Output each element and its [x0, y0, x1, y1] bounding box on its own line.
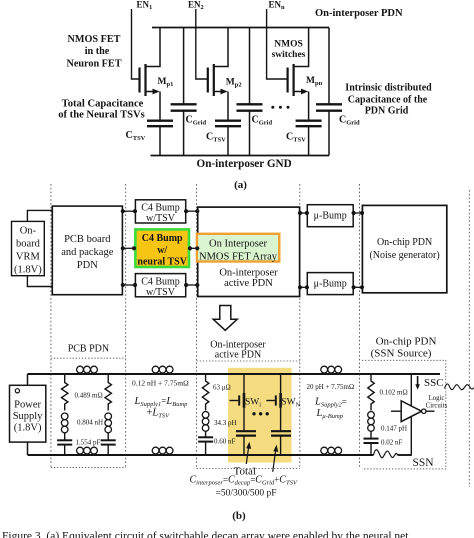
- svg-text:On-interposer GND: On-interposer GND: [197, 158, 292, 170]
- wire u-Bump bottom to On-chip: [353, 286, 362, 288]
- svg-text:Lμ-Bump: Lμ-Bump: [316, 408, 344, 420]
- box On-chip SSN dotted edges: [362, 360, 446, 469]
- resistor pcb branch A: [61, 374, 67, 411]
- block C4 Bump w/TSV top: [135, 200, 185, 223]
- svg-text:w/TSV: w/TSV: [146, 213, 176, 224]
- svg-text:active PDN: active PDN: [224, 278, 273, 289]
- svg-text:NMOS FET Array: NMOS FET Array: [199, 252, 278, 263]
- svg-text:CGrid: CGrid: [252, 115, 273, 127]
- capacitor C_TSV 1: [147, 121, 173, 156]
- arrow Total to SWN capacitor: [273, 450, 276, 472]
- resistor 0.102 mOhm: [368, 374, 374, 411]
- svg-text:0.60 nF: 0.60 nF: [214, 438, 236, 446]
- svg-text:CTSV: CTSV: [286, 132, 306, 144]
- wire interposer to u-Bump bottom: [300, 286, 308, 288]
- block u-Bump top: [307, 205, 353, 227]
- block On Interposer NMOS FET Array (highlighted): [197, 234, 279, 262]
- svg-text:NMOS FET: NMOS FET: [68, 34, 121, 45]
- svg-text:(1.8V): (1.8V): [14, 423, 42, 434]
- svg-text:and package: and package: [61, 247, 114, 258]
- svg-text:SSC: SSC: [424, 377, 444, 389]
- wire supply to bottom rail: [27, 442, 29, 455]
- capacitor 0.02 nF: [364, 431, 379, 455]
- svg-text:SWi: SWi: [245, 398, 261, 409]
- inductor L_supply2 bottom: [321, 447, 342, 454]
- svg-text:On-interposer PDN: On-interposer PDN: [315, 8, 403, 19]
- capacitor C_TSV 2: [215, 121, 241, 156]
- svg-text:active PDN: active PDN: [215, 350, 261, 361]
- svg-text:0.147 pH: 0.147 pH: [381, 425, 407, 433]
- source Power Supply: [10, 385, 46, 442]
- svg-text:C4 Bump: C4 Bump: [141, 277, 180, 288]
- svg-text:VRM: VRM: [16, 252, 41, 263]
- svg-text:(1.8V): (1.8V): [14, 265, 42, 276]
- svg-text:(a): (a): [234, 179, 247, 191]
- inductor pcb branch A: [61, 413, 68, 433]
- wire PCB to C4 top: [122, 210, 135, 212]
- block C4 Bump w/TSV bottom: [135, 274, 185, 297]
- wire C4 mid to interposer: [189, 247, 198, 249]
- svg-text:w/TSV: w/TSV: [146, 287, 176, 298]
- svg-text:Circuits: Circuits: [426, 403, 448, 410]
- op-amp inverter U1: [391, 401, 435, 422]
- transistor SWN: [266, 374, 280, 431]
- wire dashed guide line 2: [125, 184, 127, 468]
- box PCB PDN dotted edges: [51, 357, 126, 359]
- box active PDN dotted edges: [197, 360, 300, 362]
- node bottom ground rail: [28, 454, 374, 456]
- wire PCB to C4 bottom: [122, 284, 135, 286]
- svg-text:0.489 mΩ: 0.489 mΩ: [75, 392, 103, 400]
- svg-text:34.3 pH: 34.3 pH: [214, 419, 237, 427]
- svg-text:NMOS: NMOS: [274, 40, 303, 50]
- svg-text:CTSV: CTSV: [206, 132, 226, 144]
- svg-text:μ-Bump: μ-Bump: [314, 279, 347, 290]
- wire C4 top to interposer: [186, 210, 198, 212]
- resistor 63 uOhm: [202, 374, 208, 411]
- capacitor 0.60 nF: [198, 431, 213, 455]
- wire inverter supply column: [410, 374, 412, 406]
- svg-text:in the: in the: [85, 46, 110, 57]
- wire EN1 to gate of Mp1: [132, 9, 140, 79]
- wire EN2 to gate of Mp2: [196, 9, 208, 79]
- capacitor C_Grid 1: [171, 28, 197, 156]
- svg-text:PDN Grid: PDN Grid: [365, 106, 409, 117]
- capacitor under SWN: [271, 431, 291, 455]
- wire dashed guide line 3: [196, 184, 198, 469]
- svg-text:(b): (b): [232, 510, 246, 522]
- svg-text:On-chip PDN: On-chip PDN: [376, 336, 437, 348]
- node top power rail: [28, 373, 441, 375]
- svg-text:PDN: PDN: [77, 260, 98, 271]
- transistor Mp2: [208, 28, 228, 121]
- arrow SSC: [417, 376, 419, 385]
- svg-text:LSupply2=: LSupply2=: [314, 397, 347, 409]
- block arrow down: [213, 306, 237, 331]
- svg-text:0.12 nH + 7.75mΩ: 0.12 nH + 7.75mΩ: [132, 379, 189, 388]
- svg-text:On-: On-: [20, 226, 37, 237]
- svg-text:Intrinsic distributed: Intrinsic distributed: [345, 83, 432, 94]
- inductor L_supply2 top: [321, 366, 342, 373]
- svg-text:neural TSV: neural TSV: [137, 257, 187, 268]
- inductor L pcb top: [77, 366, 98, 373]
- svg-text:(Noise generator): (Noise generator): [369, 250, 439, 261]
- transistor Mpn: [288, 28, 309, 121]
- svg-text:Neuron FET: Neuron FET: [66, 59, 121, 70]
- svg-text:ENn: ENn: [269, 0, 286, 11]
- svg-text:Figure 3. (a) Equivalent ci: Figure 3. (a) Equivalent circuit of swit…: [2, 530, 409, 538]
- wire dashed guide line 6: [468, 190, 470, 487]
- svg-text:Mpn: Mpn: [306, 76, 323, 87]
- svg-text:Mp2: Mp2: [226, 78, 242, 89]
- svg-text:Total Capacitance: Total Capacitance: [62, 99, 144, 110]
- svg-text:On-interposer: On-interposer: [219, 268, 278, 279]
- svg-text:LSupply1=LBump: LSupply1=LBump: [134, 396, 189, 408]
- wire SSN noise squiggle: [374, 450, 398, 458]
- svg-text:SSN: SSN: [413, 457, 435, 469]
- wire VRM bottom to PCB box: [27, 276, 52, 287]
- wire VRM top to PCB box: [27, 210, 52, 221]
- capacitor pcb branch B: [101, 433, 116, 455]
- capacitor C_Grid 3: [316, 28, 342, 156]
- svg-text:board: board: [16, 239, 41, 250]
- block interposer: [198, 207, 300, 296]
- inductor L pcb bottom: [77, 447, 98, 454]
- svg-text:+LTSV: +LTSV: [147, 408, 171, 420]
- svg-text:20 pH + 7.75mΩ: 20 pH + 7.75mΩ: [307, 383, 355, 391]
- svg-text:of the Neural TSVs: of the Neural TSVs: [58, 110, 145, 121]
- capacitor under SWi: [236, 431, 256, 455]
- node dots ellipsis: [271, 106, 289, 109]
- svg-text:On-chip PDN: On-chip PDN: [377, 237, 432, 248]
- wire PCB to C4 mid: [122, 247, 135, 249]
- svg-text:=50/300/500 pF: =50/300/500 pF: [216, 489, 277, 499]
- inductor L_supply1 bottom: [152, 447, 173, 454]
- svg-text:C4 Bump: C4 Bump: [141, 203, 180, 214]
- node dots ellipsis SW: [252, 412, 269, 415]
- svg-text:0.02 nF: 0.02 nF: [381, 439, 403, 447]
- svg-text:EN1: EN1: [137, 0, 153, 11]
- svg-text:63 μΩ: 63 μΩ: [213, 384, 231, 392]
- highlight yellow decap region: [228, 368, 292, 463]
- svg-text:Mp1: Mp1: [158, 77, 174, 88]
- wire supply to top rail: [27, 374, 29, 385]
- wire SSC noise squiggle: [445, 384, 474, 390]
- wire u-Bump top to On-chip: [353, 212, 362, 214]
- arrow Total to SWi capacitor: [246, 447, 248, 464]
- block On-chip PDN (Noise generator): [362, 205, 446, 292]
- svg-text:Power: Power: [14, 400, 41, 411]
- svg-text:On Interposer: On Interposer: [209, 239, 268, 250]
- svg-text:(SSN Source): (SSN Source): [371, 348, 432, 360]
- block PCB board and package PDN: [52, 206, 122, 295]
- svg-text:1.554 pF: 1.554 pF: [76, 439, 101, 447]
- inductor L_supply1 top: [152, 366, 173, 373]
- resistor pcb branch B: [105, 374, 111, 411]
- capacitor pcb branch A: [57, 433, 72, 455]
- svg-text:Supply: Supply: [13, 411, 44, 422]
- capacitor C_Grid 2: [237, 28, 263, 156]
- wire interposer to u-Bump top: [300, 212, 308, 214]
- svg-text:PCB PDN: PCB PDN: [68, 344, 109, 355]
- transistor Mp1: [140, 28, 161, 121]
- block C4 Bump w/ neural TSV (highlighted): [135, 229, 189, 267]
- svg-text:CTSV: CTSV: [126, 130, 146, 142]
- svg-text:Logic: Logic: [429, 395, 445, 402]
- capacitor C_TSV 3: [296, 121, 322, 156]
- node: On-interposer PDN top rail: [152, 27, 329, 29]
- inductor 34.3 pH: [202, 412, 209, 432]
- inductor 0.147 pH: [368, 412, 375, 432]
- block On-board VRM: [12, 221, 45, 275]
- inductor pcb branch B: [105, 413, 112, 433]
- svg-text:SWN: SWN: [281, 398, 300, 409]
- wire ENn to gate of Mpn: [267, 9, 288, 79]
- svg-text:0.804 nH: 0.804 nH: [77, 419, 103, 427]
- svg-text:C4 Bump: C4 Bump: [142, 233, 183, 244]
- svg-text:PCB board: PCB board: [64, 234, 111, 245]
- svg-text:CGrid: CGrid: [186, 115, 207, 127]
- svg-text:w/: w/: [157, 245, 167, 256]
- wire dashed guide line 4: [299, 184, 301, 469]
- wire C4 bottom to interposer: [186, 284, 198, 286]
- node: On-interposer GND bottom rail: [151, 155, 330, 157]
- transistor SWi: [230, 374, 245, 431]
- svg-text:Capacitance of the: Capacitance of the: [348, 95, 428, 106]
- svg-text:switches: switches: [272, 50, 306, 60]
- wire dashed guide line 1: [50, 184, 52, 468]
- svg-text:0.102 mΩ: 0.102 mΩ: [380, 389, 408, 397]
- svg-text:μ-Bump: μ-Bump: [314, 211, 347, 222]
- block u-Bump bottom: [307, 273, 353, 295]
- svg-text:CGrid: CGrid: [339, 115, 360, 127]
- wire dashed guide line 5: [359, 184, 361, 469]
